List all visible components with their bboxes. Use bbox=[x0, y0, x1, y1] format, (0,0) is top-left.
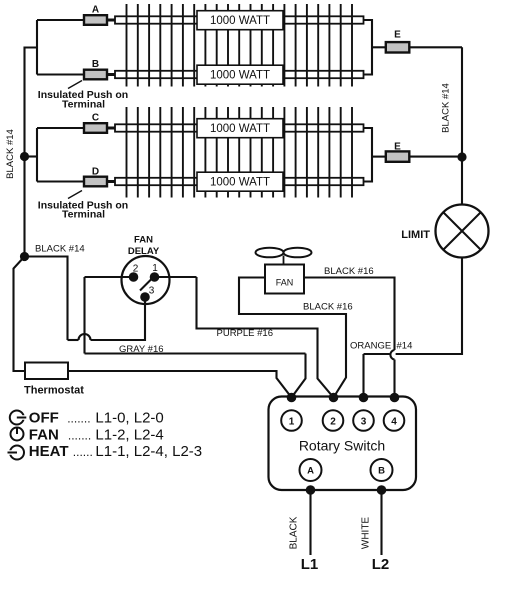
svg-text:1: 1 bbox=[152, 263, 158, 274]
svg-text:B: B bbox=[378, 466, 385, 477]
svg-text:HEAT: HEAT bbox=[29, 443, 69, 460]
svg-text:OFF: OFF bbox=[29, 410, 59, 427]
svg-text:L1-1, L2-4, L2-3: L1-1, L2-4, L2-3 bbox=[95, 443, 202, 460]
svg-text:.......: ....... bbox=[68, 429, 91, 443]
svg-text:L2: L2 bbox=[372, 556, 390, 573]
svg-text:L1: L1 bbox=[301, 556, 319, 573]
svg-text:Rotary Switch: Rotary Switch bbox=[299, 438, 385, 454]
svg-text:#14: #14 bbox=[397, 341, 413, 352]
svg-text:1000 WATT: 1000 WATT bbox=[210, 123, 270, 135]
svg-text:L1-0, L2-0: L1-0, L2-0 bbox=[95, 410, 163, 427]
svg-text:WHITE: WHITE bbox=[361, 517, 372, 550]
svg-text:BLACK #14: BLACK #14 bbox=[5, 129, 16, 179]
svg-text:Terminal: Terminal bbox=[62, 209, 105, 221]
svg-text:1000 WATT: 1000 WATT bbox=[210, 69, 270, 81]
svg-text:2: 2 bbox=[330, 416, 336, 427]
svg-text:LIMIT: LIMIT bbox=[401, 229, 430, 241]
svg-text:E: E bbox=[394, 30, 401, 41]
svg-text:ORANGE: ORANGE bbox=[350, 341, 391, 352]
svg-text:Thermostat: Thermostat bbox=[24, 385, 84, 397]
svg-text:4: 4 bbox=[391, 416, 397, 427]
svg-text:FAN: FAN bbox=[134, 234, 153, 245]
svg-text:L1-2, L2-4: L1-2, L2-4 bbox=[95, 427, 163, 444]
svg-text:C: C bbox=[92, 112, 99, 123]
svg-text:1000 WATT: 1000 WATT bbox=[210, 176, 270, 188]
svg-text:BLACK #16: BLACK #16 bbox=[303, 301, 353, 312]
svg-text:A: A bbox=[307, 466, 314, 477]
svg-text:2: 2 bbox=[133, 264, 139, 275]
svg-text:BLACK: BLACK bbox=[289, 516, 300, 549]
svg-text:D: D bbox=[92, 166, 99, 177]
svg-text:3: 3 bbox=[361, 416, 367, 427]
svg-text:E: E bbox=[394, 142, 401, 153]
svg-text:FAN: FAN bbox=[29, 427, 59, 444]
svg-text:1000 WATT: 1000 WATT bbox=[210, 15, 270, 27]
svg-text:B: B bbox=[92, 59, 99, 70]
svg-text:FAN: FAN bbox=[276, 278, 294, 288]
svg-text:A: A bbox=[92, 4, 99, 15]
svg-text:PURPLE #16: PURPLE #16 bbox=[217, 328, 274, 339]
svg-text:......: ...... bbox=[73, 445, 93, 459]
svg-text:Terminal: Terminal bbox=[62, 98, 105, 110]
svg-text:BLACK #16: BLACK #16 bbox=[324, 266, 374, 277]
svg-text:1: 1 bbox=[289, 416, 295, 427]
svg-text:BLACK #14: BLACK #14 bbox=[441, 83, 452, 133]
svg-text:.......: ....... bbox=[67, 412, 90, 426]
svg-text:GRAY #16: GRAY #16 bbox=[119, 344, 164, 355]
svg-text:BLACK #14: BLACK #14 bbox=[35, 244, 85, 255]
svg-text:3: 3 bbox=[149, 286, 155, 297]
